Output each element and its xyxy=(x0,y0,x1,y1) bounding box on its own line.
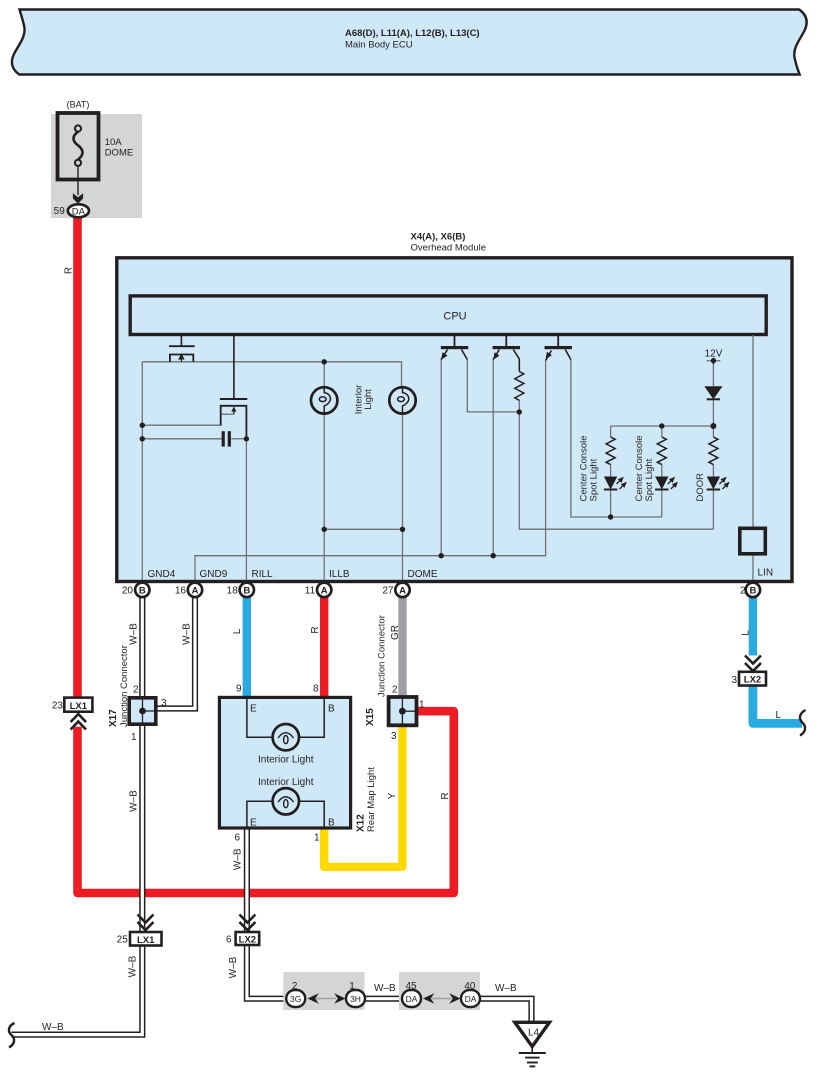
svg-text:1: 1 xyxy=(131,732,137,743)
svg-text:GND9: GND9 xyxy=(200,569,228,580)
svg-text:W–B: W–B xyxy=(129,790,140,812)
svg-text:18: 18 xyxy=(227,586,239,597)
svg-text:R: R xyxy=(310,626,321,633)
svg-text:3: 3 xyxy=(731,675,737,686)
svg-text:Spot Light: Spot Light xyxy=(589,458,600,501)
svg-text:DOME: DOME xyxy=(105,148,134,159)
svg-text:W–B: W–B xyxy=(42,1022,64,1033)
svg-text:59: 59 xyxy=(54,206,66,217)
svg-text:B: B xyxy=(139,585,146,596)
svg-text:Overhead Module: Overhead Module xyxy=(411,243,487,254)
svg-text:W–B: W–B xyxy=(374,983,396,994)
svg-text:45: 45 xyxy=(405,981,417,992)
svg-text:1: 1 xyxy=(419,700,425,711)
svg-text:1: 1 xyxy=(349,981,355,992)
svg-text:DOOR: DOOR xyxy=(695,473,706,502)
svg-text:X17: X17 xyxy=(108,709,119,727)
svg-text:9: 9 xyxy=(236,684,242,695)
svg-text:B: B xyxy=(328,818,335,829)
svg-text:Light: Light xyxy=(363,389,374,410)
svg-text:2: 2 xyxy=(740,586,746,597)
svg-text:3: 3 xyxy=(391,731,397,742)
svg-text:LX2: LX2 xyxy=(239,935,256,946)
svg-text:X4(A), X6(B): X4(A), X6(B) xyxy=(411,232,466,243)
svg-text:25: 25 xyxy=(117,935,129,946)
svg-text:CPU: CPU xyxy=(443,311,466,323)
svg-text:R: R xyxy=(63,267,74,274)
svg-text:L: L xyxy=(232,628,243,634)
svg-text:6: 6 xyxy=(226,935,232,946)
svg-text:LIN: LIN xyxy=(758,568,774,579)
svg-text:A68(D), L11(A), L12(B), L13(C): A68(D), L11(A), L12(B), L13(C) xyxy=(345,28,480,39)
svg-text:L: L xyxy=(776,710,782,721)
svg-text:2: 2 xyxy=(133,685,139,696)
svg-text:(BAT): (BAT) xyxy=(67,100,90,110)
svg-text:11: 11 xyxy=(305,586,316,597)
svg-text:X15: X15 xyxy=(365,708,376,726)
svg-text:RILL: RILL xyxy=(252,569,274,580)
svg-text:W–B: W–B xyxy=(127,955,138,977)
svg-text:8: 8 xyxy=(313,684,319,695)
svg-text:GR: GR xyxy=(390,625,401,640)
svg-text:A: A xyxy=(399,585,406,596)
svg-text:Rear Map Light: Rear Map Light xyxy=(366,767,377,832)
svg-text:A: A xyxy=(192,585,199,596)
svg-text:W–B: W–B xyxy=(182,623,193,645)
svg-text:Main Body ECU: Main Body ECU xyxy=(345,40,413,51)
svg-text:3H: 3H xyxy=(350,994,361,1004)
svg-text:GND4: GND4 xyxy=(148,569,176,580)
svg-text:2: 2 xyxy=(392,685,398,696)
svg-text:B: B xyxy=(749,585,756,596)
svg-text:Interior Light: Interior Light xyxy=(258,755,314,766)
svg-text:DA: DA xyxy=(72,206,86,217)
svg-text:LX2: LX2 xyxy=(744,675,761,686)
svg-text:LX1: LX1 xyxy=(137,935,155,946)
svg-text:3: 3 xyxy=(161,698,167,709)
svg-text:E: E xyxy=(250,704,257,715)
svg-text:L4: L4 xyxy=(528,1028,540,1039)
svg-text:16: 16 xyxy=(175,586,187,597)
svg-text:Y: Y xyxy=(387,792,398,799)
svg-text:23: 23 xyxy=(52,701,64,712)
svg-text:W–B: W–B xyxy=(233,848,244,870)
svg-text:1: 1 xyxy=(314,833,320,844)
svg-text:W–B: W–B xyxy=(129,623,140,645)
svg-text:20: 20 xyxy=(122,586,134,597)
svg-text:A: A xyxy=(321,585,328,596)
svg-text:LX1: LX1 xyxy=(70,701,88,712)
svg-text:DA: DA xyxy=(465,994,477,1004)
svg-text:6: 6 xyxy=(234,833,240,844)
svg-text:Spot Light: Spot Light xyxy=(644,458,655,501)
svg-text:B: B xyxy=(243,585,250,596)
svg-text:W–B: W–B xyxy=(228,956,239,978)
svg-text:40: 40 xyxy=(464,981,476,992)
svg-text:B: B xyxy=(328,704,335,715)
svg-text:DOME: DOME xyxy=(408,569,438,580)
svg-text:R: R xyxy=(440,792,451,799)
svg-text:27: 27 xyxy=(382,586,394,597)
svg-text:L: L xyxy=(740,630,751,636)
svg-text:10A: 10A xyxy=(105,137,123,148)
svg-text:Interior Light: Interior Light xyxy=(258,777,314,788)
svg-text:Junction Connector: Junction Connector xyxy=(377,615,388,697)
svg-text:W–B: W–B xyxy=(495,983,517,994)
svg-text:12V: 12V xyxy=(705,349,723,360)
svg-text:3G: 3G xyxy=(290,994,301,1004)
svg-text:ILLB: ILLB xyxy=(329,569,350,580)
svg-text:Junction Connector: Junction Connector xyxy=(119,645,130,727)
svg-text:X12: X12 xyxy=(356,814,367,832)
svg-text:DA: DA xyxy=(406,994,418,1004)
svg-text:E: E xyxy=(250,818,257,829)
svg-text:2: 2 xyxy=(292,981,298,992)
